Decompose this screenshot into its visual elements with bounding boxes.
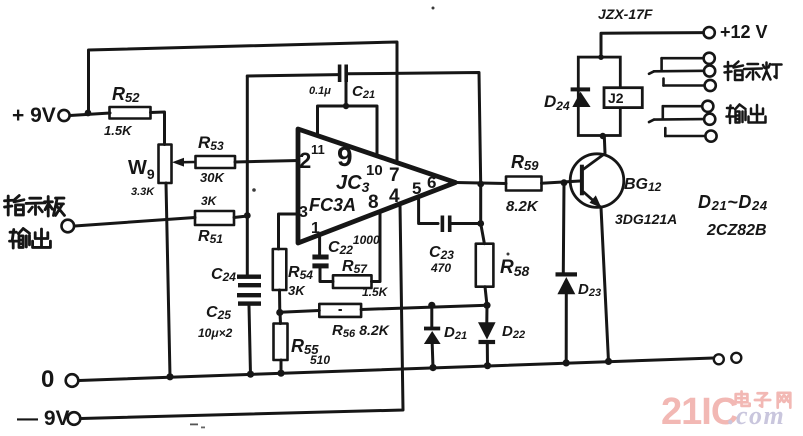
wire 0 rail xyxy=(79,358,714,381)
capacitor C25 electrolytic xyxy=(237,293,261,306)
label 输出 (output) left xyxy=(10,229,51,248)
wire op-amp pin 5 to C23 xyxy=(419,197,438,224)
wire C22 bottom to R57 left xyxy=(320,268,333,281)
relay coil box J2 xyxy=(604,88,642,108)
svg-text:3DG121A: 3DG121A xyxy=(615,211,677,227)
svg-text:1.5K: 1.5K xyxy=(362,285,389,299)
junction relay top node xyxy=(598,54,604,60)
transistor Q BG12 3DG121A xyxy=(570,153,624,208)
svg-text:2: 2 xyxy=(299,148,311,173)
junction C23/R58 node xyxy=(477,220,484,227)
terminal +12V xyxy=(704,27,715,38)
svg-text:4: 4 xyxy=(389,186,400,207)
junction R56/D21 node xyxy=(428,302,435,309)
relay contact group: output xyxy=(649,106,705,136)
resistor R58 xyxy=(476,244,494,287)
resistor R52 xyxy=(110,107,151,119)
terminal indicator input xyxy=(62,220,75,233)
junction R58/D22 node xyxy=(483,302,490,309)
scan speck xyxy=(190,424,198,426)
label 指示板 (indicator board) xyxy=(5,196,65,216)
junction op-amp output node xyxy=(477,181,484,188)
wire R53 right to op-amp pin 2 xyxy=(235,161,299,163)
scan speck xyxy=(252,188,256,192)
wire R54 bottom to node xyxy=(278,290,281,313)
svg-text:6: 6 xyxy=(427,173,436,192)
terminal 0 rail right end xyxy=(714,354,724,364)
resistor R56 xyxy=(319,304,361,317)
terminal +9V xyxy=(58,110,69,121)
svg-text:10μ×2: 10μ×2 xyxy=(198,326,233,340)
junction C25 on 0 rail xyxy=(247,371,254,378)
svg-text:30K: 30K xyxy=(200,170,225,185)
wire compensation bus pins 11-9-10 xyxy=(318,106,378,156)
wire D22 bottom to 0 rail xyxy=(486,344,489,365)
resistor R59 xyxy=(506,177,542,191)
wire R58 bottom to diode node xyxy=(485,287,487,306)
wire C23 right to output vertical xyxy=(452,222,481,225)
wire output node down to R58 xyxy=(481,184,485,244)
wire +9V terminal to R52 xyxy=(70,113,110,116)
capacitor C24 electrolytic xyxy=(237,275,261,288)
svg-text:9: 9 xyxy=(337,141,353,172)
svg-text:470: 470 xyxy=(430,261,451,275)
svg-text:JZX-17F: JZX-17F xyxy=(598,6,653,22)
svg-text:FC3A: FC3A xyxy=(309,195,356,215)
capacitor C22 1000 xyxy=(312,255,328,269)
wire R57 right up to op-amp pin 8 xyxy=(372,211,381,281)
wire relay bottom to collector xyxy=(603,136,607,153)
junction W9 on 0 rail xyxy=(166,373,173,380)
wire C21 left xyxy=(247,75,338,76)
svg-text:0.1μ: 0.1μ xyxy=(309,85,331,97)
wire op-amp pin 1 down to C22 xyxy=(318,237,321,255)
wire D21 bottom to 0 rail xyxy=(431,344,435,368)
svg-text:10: 10 xyxy=(366,162,383,179)
svg-text:1: 1 xyxy=(311,220,320,237)
diode D22 xyxy=(478,322,496,344)
terminal floating right xyxy=(731,353,741,363)
diode D21 xyxy=(424,327,441,344)
svg-text:2CZ82B: 2CZ82B xyxy=(706,222,767,239)
svg-text:7: 7 xyxy=(389,165,400,186)
svg-text:1.5K: 1.5K xyxy=(104,123,133,138)
svg-text:— 9V: — 9V xyxy=(17,407,70,430)
wire -9V rail up to op-amp pin 4 xyxy=(81,204,403,419)
svg-text:5: 5 xyxy=(412,179,421,198)
capacitor C21 0.1u xyxy=(338,65,348,83)
resistor R54 xyxy=(273,249,287,290)
svg-text:3: 3 xyxy=(299,204,308,221)
svg-text:+12 V: +12 V xyxy=(720,22,768,42)
junction base/D23 node xyxy=(561,179,568,186)
scan speck xyxy=(432,7,435,10)
wire R52 right to W9 top xyxy=(151,112,165,145)
label 指示灯 (indicator lamp) xyxy=(725,62,782,81)
junction R55 on 0 rail xyxy=(277,370,284,377)
svg-text:.com: .com xyxy=(728,401,785,430)
capacitor C23 470 xyxy=(441,216,452,233)
wire op-amp output to R59 xyxy=(456,183,507,184)
potentiometer W9 wiper arrow xyxy=(172,158,195,167)
COMPONENTS placeholder xyxy=(110,107,542,360)
wire base node down to D23 xyxy=(562,183,566,273)
resistor R53 xyxy=(196,156,236,168)
potentiometer W9 body xyxy=(159,145,172,184)
junction +9V node xyxy=(85,110,92,117)
wire feedback vertical from C21 left down to C24 xyxy=(246,76,249,275)
wire emitter down to 0 rail xyxy=(601,207,609,361)
diode D24 xyxy=(571,87,591,107)
wire R51 right to node xyxy=(234,216,247,218)
wire D22 top xyxy=(485,305,488,322)
wire R59 right to transistor base xyxy=(542,181,581,183)
label 输出 (output) right xyxy=(727,105,766,124)
svg-text:3K: 3K xyxy=(288,283,306,298)
terminal -9V xyxy=(68,412,81,425)
wire node to R55 top xyxy=(279,313,283,324)
svg-text:8.2K: 8.2K xyxy=(506,198,539,215)
op-amp U JC3/FC3A triangle xyxy=(298,129,456,243)
svg-text:11: 11 xyxy=(311,142,325,157)
wire C25 bottom to 0 rail xyxy=(249,306,251,375)
svg-text:8: 8 xyxy=(368,192,379,213)
small dash inside R56 xyxy=(339,309,342,311)
junction C21 to compensation bus xyxy=(343,103,349,109)
terminal 0 xyxy=(66,374,79,387)
watermark 电子网 xyxy=(736,391,791,407)
wire top +9V rail to pin 7 xyxy=(89,42,398,163)
junction inverting-input node (R51/C24/feedback) xyxy=(244,212,251,219)
wire op-amp pin 3 to R54 xyxy=(279,214,300,249)
svg-text:3.3K: 3.3K xyxy=(131,186,155,198)
svg-text:3K: 3K xyxy=(201,194,218,208)
wire bus up to C21 xyxy=(345,76,348,106)
svg-text:510: 510 xyxy=(310,353,330,367)
wire R55 bottom to 0 rail xyxy=(280,360,283,374)
resistor R55 xyxy=(274,324,288,361)
svg-text:+ 9V: + 9V xyxy=(12,104,56,127)
junction emitter on 0 rail xyxy=(605,358,612,365)
wire relay to +12V terminal xyxy=(601,33,704,58)
svg-text:J2: J2 xyxy=(608,90,624,106)
wire W9 bottom to 0 rail xyxy=(166,183,170,377)
resistor R57 xyxy=(333,275,372,288)
wire C21 right down to output node xyxy=(348,73,481,185)
junction D23 on 0 rail xyxy=(563,359,570,366)
relay contact group: indicator lamp xyxy=(649,58,705,85)
wire D23 bottom to 0 rail xyxy=(565,294,568,363)
wire indicator-board input to R51 xyxy=(75,218,196,227)
diode D23 xyxy=(556,272,578,294)
svg-text:21IC: 21IC xyxy=(661,391,738,433)
junction D22 on 0 rail xyxy=(484,362,491,369)
wire D21 top xyxy=(430,305,433,327)
junction D21 on 0 rail xyxy=(429,364,436,371)
wire R56 right to D21/D22 node xyxy=(361,305,487,309)
svg-text:0: 0 xyxy=(41,366,54,393)
resistor R51 xyxy=(195,211,234,225)
junction R54/R55/R56 node xyxy=(276,309,283,316)
wire node to R56 left xyxy=(280,311,319,313)
junction relay bottom / collector node xyxy=(600,133,606,139)
relay J2 coil loop xyxy=(578,57,620,135)
scan speck xyxy=(507,253,510,256)
